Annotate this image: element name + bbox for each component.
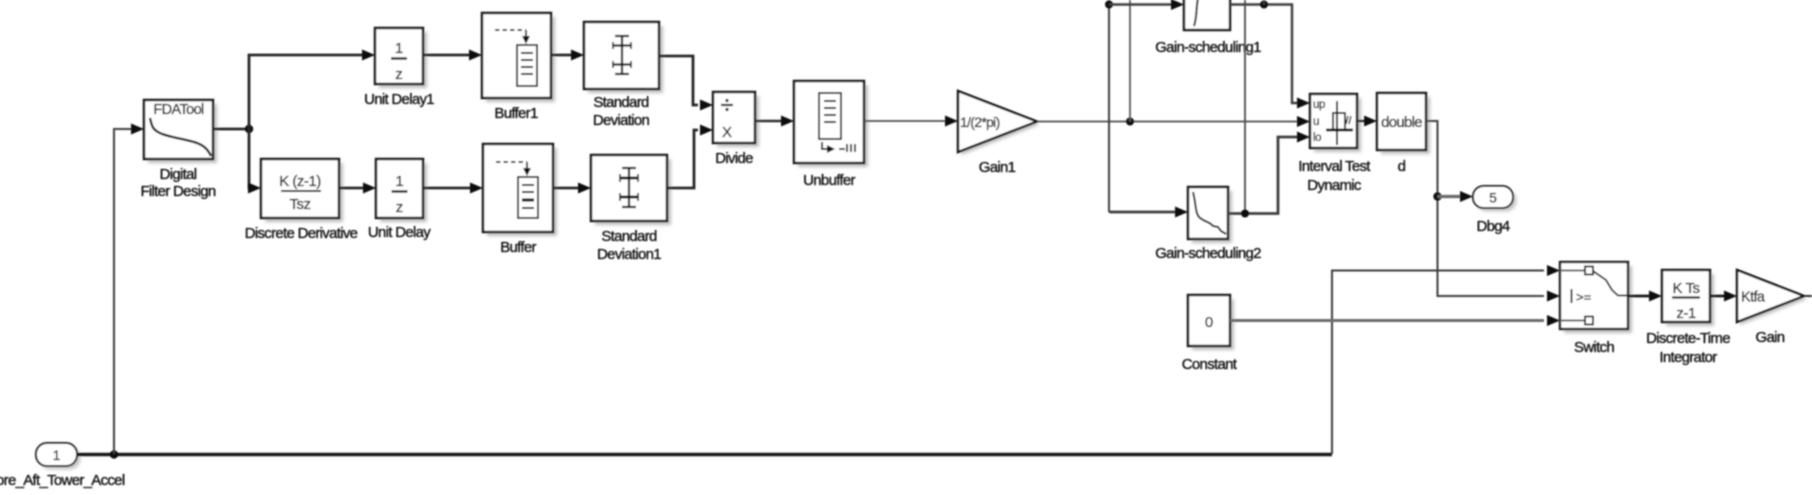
- junction at (114,454): [110, 450, 118, 458]
- block Unbuffer: [794, 81, 868, 167]
- svg-text:Switch: Switch: [1574, 339, 1614, 356]
- svg-text:Fore_Aft_Tower_Accel: Fore_Aft_Tower_Accel: [0, 472, 125, 489]
- svg-text:K Ts: K Ts: [1673, 280, 1700, 297]
- svg-text:Gain-scheduling2: Gain-scheduling2: [1155, 245, 1261, 262]
- wire: Gain output to right edge: [1804, 295, 1812, 297]
- wire: DFD output to junction: [213, 128, 249, 131]
- svg-text:Deviation: Deviation: [593, 112, 650, 129]
- svg-text:up: up: [1313, 99, 1325, 111]
- svg-text:Discrete Derivative: Discrete Derivative: [245, 225, 358, 242]
- wire: double output down to Switch in2: [1426, 121, 1544, 296]
- svg-text:Constant: Constant: [1182, 356, 1238, 373]
- wire: riser from bottom bus to Switch in1: [1332, 271, 1544, 455]
- wire: Unit Delay to Buffer: [423, 187, 474, 190]
- wire: Unit Delay1 to Buffer1: [423, 54, 473, 57]
- block Unit Delay1: [375, 28, 427, 88]
- wire: Buffer1 to Standard Deviation: [551, 54, 575, 57]
- outport Dbg4 (5): [1473, 186, 1517, 212]
- block Buffer: [483, 144, 557, 236]
- svg-text:FDATool: FDATool: [153, 102, 204, 118]
- svg-text:Gain1: Gain1: [979, 159, 1016, 176]
- svg-text:Standard: Standard: [601, 228, 657, 245]
- wire: vertical up to Digital Filter Design input: [114, 129, 135, 454]
- svg-text:Unit Delay: Unit Delay: [368, 224, 431, 241]
- svg-text:Buffer: Buffer: [500, 239, 536, 256]
- wire: Discrete Derivative to Unit Delay: [339, 187, 367, 190]
- svg-text:Buffer1: Buffer1: [494, 105, 538, 122]
- wire: Interval Test to double: [1357, 120, 1368, 122]
- block Gain1: [958, 91, 1040, 155]
- wire: vertical x=1130 to top edge: [1129, 0, 1131, 122]
- block Divide: [713, 92, 759, 147]
- block Standard Deviation1: [591, 155, 671, 225]
- svg-text:1: 1: [53, 447, 61, 463]
- wire: branch down to Discrete Derivative: [249, 129, 252, 188]
- svg-text:z: z: [396, 199, 404, 216]
- block Buffer1: [482, 13, 555, 102]
- wire: to Gain-scheduling1 input: [1109, 3, 1175, 5]
- wire: vertical x=1109 from top edge down, feeding Gain-scheduling blocks: [1108, 0, 1110, 212]
- svg-text:0: 0: [1205, 314, 1213, 331]
- svg-text:1: 1: [395, 173, 403, 190]
- block Switch: [1560, 262, 1632, 333]
- block Discrete-Time Integrator: [1662, 270, 1714, 326]
- wire: Gain1 to Interval Test Dynamic u input: [1037, 121, 1301, 123]
- block Gain (Ktfa): [1737, 270, 1807, 325]
- junction at (1264,4.5) with stub to top edge: [1260, 1, 1268, 9]
- block Digital Filter Design: [144, 100, 217, 163]
- wire: inport to riser (bottom bus): [77, 453, 1332, 456]
- wire: Buffer to Standard Deviation1: [553, 187, 582, 190]
- svg-text:1: 1: [395, 40, 403, 57]
- svg-text:Filter Design: Filter Design: [140, 183, 215, 200]
- svg-text:z: z: [395, 66, 403, 83]
- wire: Standard Deviation1 to Divide in2: [667, 130, 698, 188]
- svg-text:Interval Test: Interval Test: [1298, 158, 1371, 175]
- block double (data type conversion d): [1377, 93, 1430, 154]
- wire: Gain-scheduling1 output to Interval Test up input: [1230, 5, 1301, 104]
- wire: Constant to Switch in3: [1230, 319, 1544, 322]
- block Standard Deviation: [584, 22, 663, 93]
- svg-text:Discrete-Time: Discrete-Time: [1646, 330, 1730, 347]
- wire: to Gain-scheduling2 input: [1109, 211, 1179, 214]
- junction at (1109,4.5): [1105, 1, 1113, 9]
- block Discrete Derivative: [261, 159, 343, 222]
- svg-text:X: X: [722, 124, 732, 141]
- svg-text:Dynamic: Dynamic: [1307, 177, 1362, 194]
- svg-text:Digital: Digital: [160, 166, 197, 183]
- junction at (1245,213.5): [1241, 210, 1249, 218]
- svg-text:Unit Delay1: Unit Delay1: [364, 91, 434, 108]
- svg-text:lo: lo: [1313, 132, 1321, 144]
- block Constant: [1188, 295, 1234, 350]
- wire: Switch to Discrete-Time Integrator: [1628, 295, 1653, 298]
- svg-text:u: u: [1313, 116, 1319, 128]
- svg-text:z-1: z-1: [1676, 305, 1695, 322]
- wire: Discrete-Time Integrator to Gain: [1710, 295, 1728, 298]
- svg-text:Divide: Divide: [715, 150, 753, 167]
- block Unit Delay: [376, 159, 427, 222]
- svg-text:Integrator: Integrator: [1659, 349, 1717, 366]
- block Gain-scheduling1 (cut off at top): [1184, 0, 1230, 30]
- inport In1 (Fore_Aft_Tower_Accel): [36, 443, 81, 470]
- junction at (1130,121.5): [1126, 118, 1134, 126]
- svg-text:Gain: Gain: [1756, 329, 1785, 346]
- svg-text:Tsz: Tsz: [290, 196, 311, 213]
- svg-text:Dbg4: Dbg4: [1476, 218, 1509, 235]
- svg-text:5: 5: [1489, 190, 1497, 206]
- svg-text:1/(2*pi): 1/(2*pi): [960, 114, 1000, 130]
- svg-text:Ktfa: Ktfa: [1741, 290, 1766, 306]
- junction at (1437.5,196.5): [1433, 192, 1441, 200]
- svg-text:d: d: [1398, 158, 1406, 175]
- svg-text:K (z-1): K (z-1): [279, 173, 321, 190]
- svg-text:Deviation1: Deviation1: [597, 246, 661, 263]
- svg-text:>=: >=: [1576, 290, 1591, 305]
- block Gain-scheduling2: [1188, 187, 1232, 243]
- wire: Standard Deviation to Divide in1: [659, 56, 698, 105]
- svg-text:double: double: [1381, 114, 1422, 131]
- wire: Divide to Unbuffer: [755, 120, 785, 122]
- wire: vertical x=1245 from top edge to Gain-scheduling2 output junction: [1244, 0, 1246, 214]
- svg-text:Unbuffer: Unbuffer: [803, 172, 855, 189]
- junction at (249,129): [245, 125, 253, 133]
- wire: Gain-scheduling2 output to Interval Test lo input: [1228, 137, 1301, 214]
- block Interval Test Dynamic: [1310, 94, 1361, 152]
- wire: branch to Dbg4 outport: [1438, 195, 1461, 198]
- wire: Unbuffer to Gain1: [864, 120, 945, 122]
- wire: branch up to Unit Delay1: [249, 55, 366, 129]
- svg-text:Standard: Standard: [593, 94, 649, 111]
